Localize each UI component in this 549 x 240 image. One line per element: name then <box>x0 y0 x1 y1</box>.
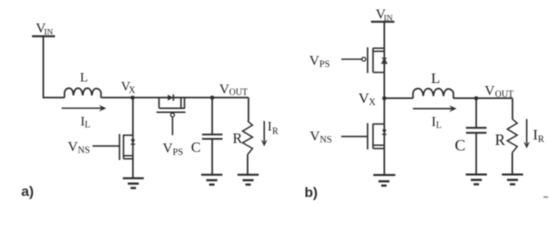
svg-text:V: V <box>309 54 319 69</box>
svg-text:L: L <box>431 71 440 87</box>
svg-text:X: X <box>129 85 136 95</box>
svg-text:R: R <box>495 132 506 149</box>
svg-text:a): a) <box>21 183 33 199</box>
svg-text:I: I <box>268 119 272 134</box>
svg-text:C: C <box>191 140 201 156</box>
svg-text:L: L <box>436 120 442 130</box>
svg-text:V: V <box>219 83 229 98</box>
svg-text:V: V <box>68 140 78 155</box>
svg-text:V: V <box>310 129 320 144</box>
svg-text:IN: IN <box>384 13 393 23</box>
svg-text:V: V <box>358 91 369 107</box>
svg-text:NS: NS <box>78 146 90 156</box>
svg-text:C: C <box>455 137 466 154</box>
svg-text:OUT: OUT <box>229 87 248 97</box>
svg-text:L: L <box>80 70 88 85</box>
svg-text:R: R <box>272 126 278 136</box>
svg-text:IN: IN <box>44 26 53 36</box>
svg-text:NS: NS <box>320 136 332 146</box>
svg-text:PS: PS <box>173 148 184 158</box>
svg-text:PS: PS <box>319 60 330 70</box>
svg-text:V: V <box>163 142 173 157</box>
svg-text:X: X <box>369 98 376 108</box>
svg-text:b): b) <box>305 184 318 200</box>
svg-text:R: R <box>233 131 243 147</box>
svg-text:OUT: OUT <box>495 89 514 99</box>
svg-text:V: V <box>485 84 495 99</box>
svg-text:L: L <box>85 120 91 130</box>
svg-text:R: R <box>538 135 545 145</box>
